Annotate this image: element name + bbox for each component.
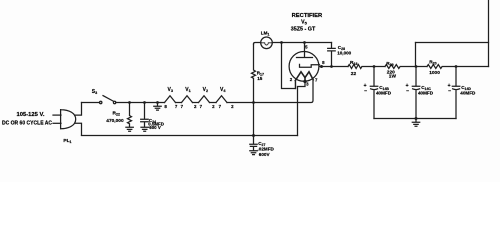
svg-text:−: − — [364, 89, 367, 95]
svg-text:5: 5 — [305, 45, 308, 50]
resistor R18 — [348, 65, 374, 69]
svg-text:V3: V3 — [168, 87, 173, 93]
wire pin 2 lead inside — [294, 81, 296, 89]
tube V5 envelope — [289, 52, 319, 82]
wire plug top lead — [75, 103, 82, 116]
plug prong bottom — [53, 122, 61, 124]
svg-text:105-125 V.: 105-125 V. — [17, 112, 45, 118]
ground — [141, 127, 148, 131]
wire B-plus riser — [488, 0, 490, 67]
wire filter ground bus — [374, 118, 456, 120]
node C28 junction — [330, 65, 333, 68]
wire line to switch — [82, 102, 100, 104]
ground — [412, 119, 419, 127]
plug prong top — [53, 114, 61, 116]
wire cathode output line — [320, 66, 349, 68]
wire plug bottom lead — [75, 123, 82, 135]
heater V1 — [182, 96, 193, 103]
capacitor C14C — [412, 67, 420, 119]
svg-text:2: 2 — [290, 77, 293, 82]
svg-text:40MFD: 40MFD — [376, 91, 392, 96]
svg-text:7: 7 — [219, 104, 222, 109]
heater V4 — [216, 96, 227, 103]
wire heater line to rectifier pin 7 — [227, 80, 313, 103]
tube V5 plate — [297, 43, 313, 58]
node plate junction pin 5 — [303, 41, 306, 44]
svg-text:RECTIFIER: RECTIFIER — [292, 13, 323, 19]
svg-text:DC OR 60 CYCLE AC: DC OR 60 CYCLE AC — [2, 121, 52, 127]
wire — [210, 102, 217, 104]
svg-text:R19: R19 — [386, 61, 393, 67]
wire switch to heater string — [116, 102, 165, 104]
svg-text:3: 3 — [306, 82, 309, 87]
svg-text:2: 2 — [231, 104, 234, 109]
wire B-plus top bus — [416, 42, 489, 44]
node C27 junction — [252, 134, 255, 137]
capacitor C24 — [141, 103, 149, 127]
svg-text:600V: 600V — [259, 152, 271, 157]
svg-text:7: 7 — [200, 104, 203, 109]
svg-text:40MFD: 40MFD — [460, 91, 476, 96]
heater V3 — [165, 96, 176, 103]
tube V5 heater — [295, 72, 313, 81]
switch S3 — [100, 101, 102, 103]
ground — [250, 151, 257, 155]
wire — [193, 102, 199, 104]
lamp LM1 — [261, 37, 273, 49]
svg-text:470,000: 470,000 — [106, 118, 124, 124]
wire pin 3 to return line — [298, 81, 306, 135]
ground — [126, 127, 133, 131]
capacitor C14D — [452, 67, 460, 119]
wire — [416, 66, 427, 68]
wire riser from C14C junction — [415, 43, 417, 67]
svg-text:LM1: LM1 — [261, 31, 270, 37]
svg-text:S3: S3 — [92, 89, 97, 95]
svg-text:R20: R20 — [429, 59, 436, 65]
wire lamp left lead — [254, 43, 261, 45]
svg-text:2: 2 — [212, 104, 215, 109]
ground — [154, 103, 161, 111]
svg-text:15: 15 — [257, 76, 263, 81]
svg-text:8: 8 — [322, 60, 325, 65]
capacitor C27 — [250, 136, 257, 151]
resistor R22 — [128, 103, 132, 127]
wire return line — [82, 135, 298, 137]
svg-text:7: 7 — [175, 104, 178, 109]
node ground junction — [415, 117, 418, 120]
svg-text:2: 2 — [194, 104, 197, 109]
node C14B junction — [373, 65, 376, 68]
capacitor C14B — [370, 67, 378, 119]
svg-text:22: 22 — [351, 71, 357, 77]
svg-text:1W: 1W — [389, 74, 397, 80]
svg-text:−: − — [406, 89, 409, 95]
tube V5 heater tap pin 3 — [304, 78, 306, 82]
plug PL1 — [61, 110, 76, 129]
node lamp branch junction — [252, 101, 255, 104]
svg-text:7: 7 — [181, 104, 184, 109]
wire output line to riser — [456, 66, 489, 68]
svg-text:10,000: 10,000 — [337, 50, 351, 55]
svg-text:PL1: PL1 — [63, 138, 71, 144]
node B-minus junction — [156, 101, 159, 104]
wire lamp right lead / plate top bus — [272, 42, 331, 44]
svg-text:V4: V4 — [220, 87, 226, 93]
svg-text:R18: R18 — [350, 60, 357, 66]
svg-text:V5: V5 — [301, 20, 307, 26]
wire — [176, 102, 182, 104]
node pin2 riser junction — [280, 41, 283, 44]
svg-text:−: − — [448, 89, 451, 95]
heater V2 — [199, 96, 210, 103]
svg-text:7: 7 — [315, 77, 318, 82]
svg-text:600 V: 600 V — [149, 125, 161, 130]
svg-text:1000: 1000 — [429, 70, 440, 76]
node R22 junction — [128, 101, 131, 104]
wire lamp branch to return line — [253, 103, 255, 136]
node C14C junction — [415, 65, 418, 68]
node C24 junction — [143, 101, 146, 104]
svg-text:40MFD: 40MFD — [418, 91, 434, 96]
svg-text:V2: V2 — [203, 87, 208, 93]
svg-text:8: 8 — [164, 104, 167, 109]
node C14D junction — [455, 65, 458, 68]
resistor R19 — [385, 65, 416, 69]
resistor R20 — [427, 65, 456, 69]
svg-text:R22: R22 — [113, 111, 120, 117]
svg-text:V1: V1 — [185, 87, 190, 93]
resistor R17 — [252, 44, 256, 103]
node pin 8 — [320, 65, 323, 68]
wire pin 2 connection — [282, 43, 296, 89]
capacitor C28 — [328, 43, 336, 67]
svg-text:35Z5 - GT: 35Z5 - GT — [291, 27, 316, 33]
wire — [374, 66, 385, 68]
tube V5 cathode — [300, 64, 320, 67]
